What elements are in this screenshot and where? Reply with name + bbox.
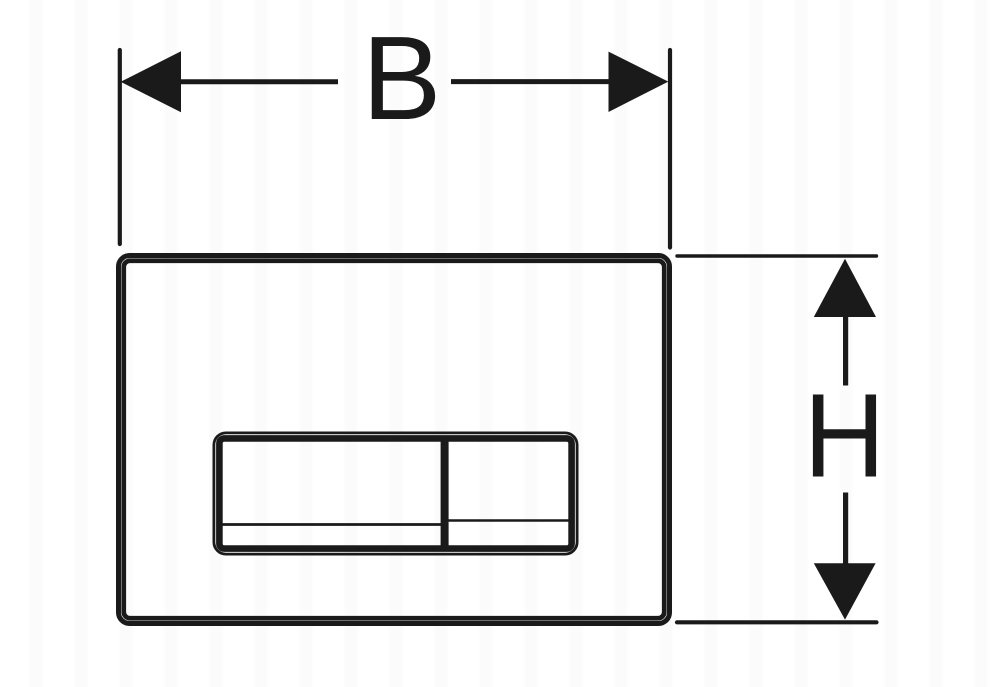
button panel inner frame (219, 438, 571, 548)
arrowhead right of dimension B (609, 52, 669, 112)
label B (362, 12, 441, 145)
button divider bar (441, 441, 449, 546)
extension line top of dimension H (677, 254, 877, 257)
button panel outer frame (214, 433, 577, 554)
dimension line H lower segment (843, 493, 848, 565)
arrowhead up of dimension H (814, 259, 876, 317)
extension line right of dimension B (668, 50, 672, 248)
dimension line H upper segment (843, 316, 848, 386)
left button split line (222, 523, 445, 526)
arrowhead down of dimension H (814, 563, 876, 619)
dimension line B left segment (180, 79, 338, 84)
svg-text:B: B (362, 12, 441, 145)
svg-text:H: H (804, 369, 886, 502)
arrowhead left of dimension B (121, 51, 181, 112)
extension line bottom of dimension H (677, 620, 877, 624)
flush plate inner outline (124, 261, 665, 619)
dimension line B right segment (451, 79, 610, 84)
extension line left of dimension B (118, 50, 122, 244)
flush plate outer outline (119, 256, 670, 624)
label H (804, 369, 886, 502)
right button split line (445, 519, 569, 522)
